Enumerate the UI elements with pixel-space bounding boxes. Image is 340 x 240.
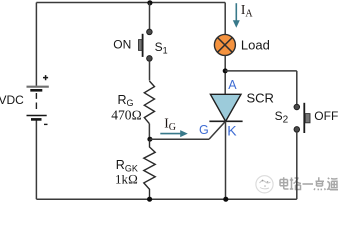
wire S2 branch down	[296, 71, 298, 105]
svg-text:VDC: VDC	[0, 93, 24, 107]
点	[314, 177, 325, 190]
wire gate diagonal to SCR	[209, 121, 225, 139]
watermark logo	[256, 176, 273, 193]
通	[327, 178, 338, 190]
svg-text:IA: IA	[241, 2, 254, 20]
svg-text:S1: S1	[155, 40, 168, 56]
SCR cathode bar	[209, 120, 242, 122]
一	[303, 183, 314, 185]
svg-text:OFF: OFF	[314, 109, 338, 123]
switch S2 (pushbutton OFF)	[294, 103, 310, 133]
wire lamp branch top	[224, 3, 226, 35]
wire left upper (battery anode)	[35, 3, 37, 86]
resistor RG zigzag	[144, 81, 154, 124]
battery V1 plates	[27, 87, 49, 120]
wire S1 to RG	[149, 61, 151, 81]
battery minus sign	[44, 123, 48, 125]
lamp (Load)	[214, 34, 235, 55]
node gate junction	[147, 137, 152, 142]
wire left lower	[35, 120, 37, 199]
node junction below lamp	[223, 68, 228, 73]
wire gate horizontal	[150, 138, 209, 140]
switch S1 (pushbutton ON)	[139, 29, 153, 61]
wire to S2 branch	[225, 70, 297, 72]
svg-text:ON: ON	[113, 38, 131, 52]
node bottom cathode junction	[223, 197, 228, 202]
svg-text:K: K	[227, 123, 237, 139]
node junction top (S1 branch)	[147, 0, 152, 5]
电	[284, 177, 289, 189]
wire top	[36, 2, 225, 4]
svg-text:RG: RG	[118, 93, 134, 108]
svg-text:S2: S2	[275, 109, 289, 126]
svg-text:SCR: SCR	[247, 91, 274, 106]
svg-text:470Ω: 470Ω	[111, 107, 142, 122]
current arrow IA	[233, 3, 240, 28]
watermark text 电路一点通	[280, 177, 338, 190]
node bottom RGK junction	[147, 197, 152, 202]
svg-text:1kΩ: 1kΩ	[115, 172, 138, 187]
wire S2 down	[296, 132, 298, 199]
current arrow IG	[160, 130, 188, 137]
svg-text:G: G	[199, 123, 209, 137]
wire bottom	[36, 198, 296, 200]
resistor RGK zigzag	[144, 139, 155, 199]
wire RG to junction	[148, 124, 150, 140]
路	[290, 178, 301, 190]
wire S1 branch from top	[149, 3, 151, 30]
SCR thyristor triangle	[210, 94, 241, 121]
battery plus sign	[43, 75, 48, 80]
wire lamp to SCR	[224, 55, 226, 94]
wire cathode down	[225, 121, 227, 199]
svg-text:IG: IG	[164, 115, 176, 133]
svg-text:A: A	[228, 78, 237, 92]
svg-text:Load: Load	[241, 37, 270, 52]
